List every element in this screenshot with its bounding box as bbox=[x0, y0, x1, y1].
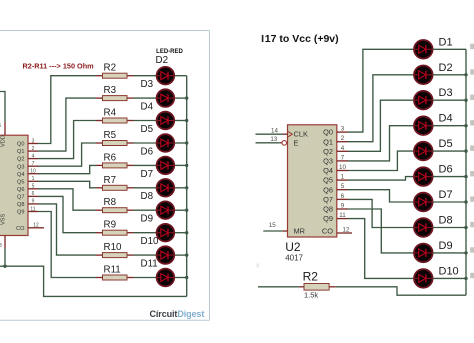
svg-text:7: 7 bbox=[341, 154, 345, 161]
svg-text:12: 12 bbox=[343, 226, 350, 233]
svg-text:R2: R2 bbox=[303, 270, 319, 284]
svg-text:D6: D6 bbox=[439, 164, 453, 176]
svg-text:9: 9 bbox=[32, 199, 35, 205]
svg-text:6: 6 bbox=[341, 193, 345, 200]
svg-text:10: 10 bbox=[339, 164, 346, 171]
svg-text:13: 13 bbox=[270, 136, 277, 143]
svg-text:D1: D1 bbox=[439, 36, 453, 48]
svg-text:14: 14 bbox=[271, 128, 278, 135]
svg-text:D3: D3 bbox=[439, 87, 453, 99]
svg-text:Q8: Q8 bbox=[17, 202, 24, 208]
svg-text:4: 4 bbox=[32, 153, 35, 159]
svg-text:D2: D2 bbox=[156, 55, 169, 66]
svg-text:8: 8 bbox=[0, 243, 2, 249]
svg-text:Q0: Q0 bbox=[17, 142, 24, 148]
svg-text:D11: D11 bbox=[141, 259, 158, 270]
svg-text:R2: R2 bbox=[104, 63, 117, 74]
svg-text:CLK: CLK bbox=[294, 130, 308, 139]
svg-text:VDD: VDD bbox=[1, 135, 7, 147]
svg-text:Q1: Q1 bbox=[323, 137, 333, 146]
svg-text:R5: R5 bbox=[104, 130, 117, 141]
svg-text:11: 11 bbox=[339, 212, 346, 219]
svg-text:Q5: Q5 bbox=[17, 179, 24, 185]
svg-text:Q7: Q7 bbox=[17, 195, 24, 201]
svg-text:Q4: Q4 bbox=[17, 172, 24, 178]
svg-text:12: 12 bbox=[33, 223, 39, 229]
svg-text:D8: D8 bbox=[141, 191, 154, 202]
svg-text:CO: CO bbox=[16, 226, 25, 232]
svg-text:R10: R10 bbox=[104, 242, 123, 253]
svg-text:VSS: VSS bbox=[1, 214, 7, 225]
svg-text:R8: R8 bbox=[104, 197, 117, 208]
svg-text:9: 9 bbox=[341, 203, 345, 210]
svg-text:Q2: Q2 bbox=[17, 157, 24, 163]
svg-text:R2-R11 ---> 150 Ohm: R2-R11 ---> 150 Ohm bbox=[23, 62, 95, 71]
svg-text:1.5k: 1.5k bbox=[304, 291, 318, 300]
svg-text:Q6: Q6 bbox=[17, 187, 24, 193]
svg-text:R4: R4 bbox=[104, 108, 117, 119]
svg-text:6: 6 bbox=[32, 191, 35, 197]
svg-text:CírcuitDigest: CírcuitDigest bbox=[150, 309, 205, 319]
svg-text:D6: D6 bbox=[141, 146, 154, 157]
svg-text:7: 7 bbox=[32, 161, 35, 167]
svg-text:D3: D3 bbox=[141, 79, 154, 90]
svg-text:MR: MR bbox=[294, 227, 306, 236]
svg-text:5: 5 bbox=[341, 183, 345, 190]
svg-text:3: 3 bbox=[341, 126, 345, 133]
svg-text:1: 1 bbox=[341, 174, 345, 181]
svg-text:Q9: Q9 bbox=[323, 214, 333, 223]
svg-text:D9: D9 bbox=[439, 240, 453, 252]
svg-text:Q7: Q7 bbox=[323, 195, 333, 204]
svg-text:Q6: Q6 bbox=[323, 185, 333, 194]
svg-text:3: 3 bbox=[32, 138, 35, 144]
svg-text:D7: D7 bbox=[439, 189, 453, 201]
svg-text:15: 15 bbox=[269, 222, 276, 229]
svg-text:1: 1 bbox=[32, 176, 35, 182]
svg-text:4: 4 bbox=[341, 145, 345, 152]
svg-text:Q1: Q1 bbox=[17, 149, 24, 155]
svg-text:D4: D4 bbox=[439, 113, 453, 125]
svg-text:R3: R3 bbox=[104, 85, 117, 96]
svg-text:17 to Vcc (+9v): 17 to Vcc (+9v) bbox=[265, 33, 339, 45]
svg-text:D5: D5 bbox=[439, 138, 453, 150]
svg-text:Q0: Q0 bbox=[323, 128, 333, 137]
svg-text:5: 5 bbox=[32, 184, 35, 190]
svg-text:2: 2 bbox=[341, 135, 345, 142]
svg-text:Q4: Q4 bbox=[323, 166, 333, 175]
svg-text:R9: R9 bbox=[104, 220, 117, 231]
svg-text:D4: D4 bbox=[141, 102, 154, 113]
svg-text:D2: D2 bbox=[439, 62, 453, 74]
svg-text:10: 10 bbox=[30, 169, 36, 175]
svg-text:R11: R11 bbox=[104, 265, 121, 276]
svg-text:R7: R7 bbox=[104, 175, 117, 186]
svg-text:Q3: Q3 bbox=[17, 164, 24, 170]
svg-text:Q9: Q9 bbox=[17, 210, 24, 216]
svg-text:4017: 4017 bbox=[285, 253, 303, 262]
svg-text:E: E bbox=[294, 138, 299, 147]
svg-text:Q2: Q2 bbox=[323, 147, 333, 156]
svg-text:D8: D8 bbox=[439, 215, 453, 227]
svg-text:CO: CO bbox=[322, 227, 333, 236]
svg-text:R6: R6 bbox=[104, 152, 117, 163]
svg-text:Q3: Q3 bbox=[323, 157, 333, 166]
svg-text:Q5: Q5 bbox=[323, 176, 333, 185]
svg-text:D5: D5 bbox=[141, 124, 154, 135]
svg-text:11: 11 bbox=[30, 206, 35, 212]
svg-text:D10: D10 bbox=[141, 236, 160, 247]
svg-text:D7: D7 bbox=[141, 169, 154, 180]
svg-text:2: 2 bbox=[32, 146, 35, 152]
svg-text:U2: U2 bbox=[285, 240, 301, 254]
svg-text:LED-RED: LED-RED bbox=[156, 49, 183, 55]
svg-text:D9: D9 bbox=[141, 214, 154, 225]
svg-text:D10: D10 bbox=[439, 265, 459, 277]
svg-text:Q8: Q8 bbox=[323, 205, 333, 214]
